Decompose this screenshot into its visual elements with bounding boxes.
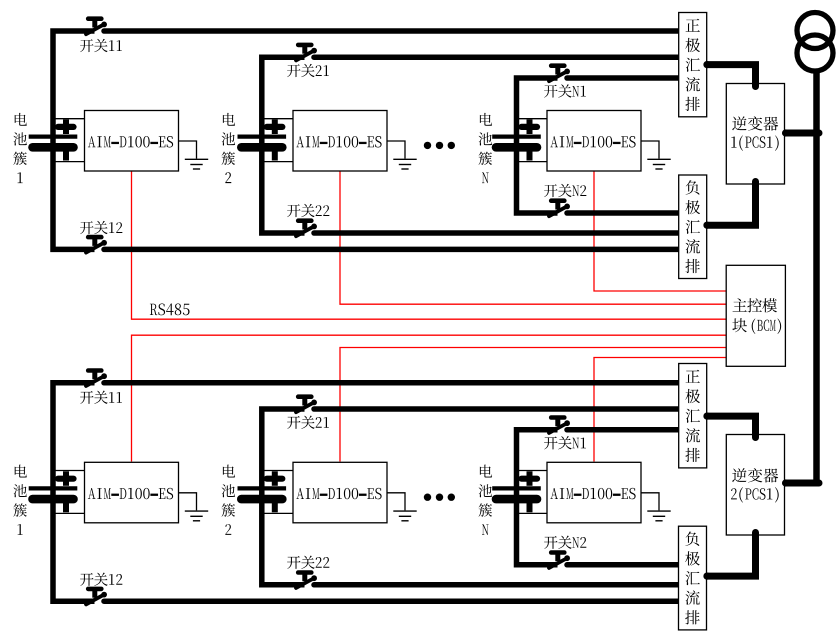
- label AIM-D100-ES (cluster N top): [550, 136, 635, 147]
- BMS module AIM-D100-ES (cluster N top): [547, 111, 641, 172]
- label 1(PCS1): [731, 135, 778, 151]
- wire: inverter 2 AC output to transformer line: [786, 480, 820, 487]
- BMS module AIM-D100-ES (cluster N bottom): [547, 462, 641, 523]
- switch 开关21 bottom: [296, 397, 317, 413]
- wire: negative busbar top to inverter 1 input: [707, 182, 756, 226]
- wire: module N bottom to ground: [641, 493, 659, 511]
- label 开关12 top: [80, 221, 122, 234]
- red wire: AIM module 1 bottom to BCM (RS485): [132, 335, 727, 461]
- wire: bottom bus from switch N2 top to negative busbar: [567, 210, 680, 216]
- BMS module AIM-D100-ES (cluster 1 bottom): [85, 462, 179, 523]
- label 开关22 top: [287, 204, 329, 217]
- switch 开关N1 bottom: [549, 418, 570, 434]
- wire: positive busbar top to inverter 1 input: [707, 65, 756, 87]
- label 正极汇流排 (正极汇流排 top): [685, 19, 700, 111]
- label 开关22 bottom: [287, 556, 329, 569]
- wire: battery 1 bottom positive lead to module: [53, 470, 85, 472]
- inverter U2 逆变器2(PCS1) box: [726, 435, 784, 536]
- label 开关12 bottom: [80, 573, 122, 586]
- wire: module 2 bottom to ground: [387, 493, 405, 511]
- switch 开关22 top: [296, 221, 317, 237]
- wire: battery 1 top positive lead to module: [53, 118, 85, 120]
- label 电池簇1 top: [13, 113, 27, 183]
- label 开关11 bottom: [80, 391, 122, 404]
- wire: inverter 1 AC output to transformer line: [786, 130, 820, 137]
- label 开关21 bottom: [287, 416, 329, 429]
- label AIM-D100-ES (cluster N bottom): [550, 488, 635, 499]
- wire: top bus from switch N1 bottom to positive busbar: [567, 427, 680, 433]
- busbar box: 负极汇流排 top: [679, 175, 707, 279]
- battery cluster 1 bottom: [29, 471, 78, 512]
- wire: battery 2 top negative lead to module: [262, 161, 293, 163]
- wire: battery 2 bottom positive lead to module: [262, 470, 293, 472]
- label 开关N1 top: [544, 84, 586, 97]
- label 负极汇流排 (负极汇流排 top): [685, 180, 700, 273]
- label AIM-D100-ES (cluster 1 top): [88, 136, 173, 147]
- busbar box: 负极汇流排 bottom: [679, 526, 707, 630]
- label 逆变器 (inverter 2): [732, 468, 778, 482]
- wire: cluster 2 top trunk with top/bottom bus stubs: [262, 57, 305, 233]
- label 电池簇2 bottom: [222, 465, 236, 535]
- label AIM-D100-ES (cluster 1 bottom): [88, 488, 173, 499]
- switch 开关21 top: [296, 45, 317, 61]
- wire: top bus from switch 11 bottom to positive busbar: [104, 380, 680, 386]
- label AIM-D100-ES (cluster 2 top): [296, 136, 381, 147]
- wire: top bus from switch 21 top to positive busbar: [314, 54, 680, 60]
- wire: cluster 1 top trunk with top/bottom bus stubs: [53, 31, 95, 249]
- BMS module AIM-D100-ES (cluster 1 top): [85, 111, 179, 172]
- battery cluster 1 top: [29, 120, 78, 161]
- label AIM-D100-ES (cluster 2 bottom): [296, 488, 381, 499]
- label RS485: [150, 303, 190, 315]
- red wire: AIM module 2 bottom to BCM (RS485): [340, 348, 726, 462]
- switch 开关N1 top: [549, 66, 570, 82]
- switch 开关N2 bottom: [549, 553, 570, 569]
- wire: bottom bus from switch 22 top to negative busbar: [314, 230, 680, 236]
- battery cluster N top: [492, 120, 541, 161]
- ground (cluster 1 bottom): [185, 511, 208, 521]
- label 负极汇流排 (负极汇流排 bottom): [685, 532, 700, 625]
- wire: battery 2 top positive lead to module: [262, 118, 293, 120]
- label 电池簇1 bottom: [13, 465, 27, 535]
- wire: battery N top negative lead to module: [517, 161, 548, 163]
- label 电池簇2 top: [222, 113, 236, 183]
- label 开关N2 top: [544, 184, 586, 197]
- wire: negative busbar bottom to inverter 2 input: [707, 533, 756, 577]
- wire: module N top to ground: [641, 141, 659, 159]
- switch 开关12 bottom: [86, 589, 107, 605]
- label 逆变器 (inverter 1): [732, 116, 778, 130]
- battery cluster N bottom: [492, 471, 541, 512]
- wire: module 2 top to ground: [387, 141, 405, 159]
- wire: battery 1 bottom negative lead to module: [53, 512, 85, 514]
- switch 开关11 top: [86, 19, 107, 35]
- wire: module 1 top to ground: [179, 141, 197, 159]
- label 电池簇N bottom: [479, 465, 493, 535]
- wire: positive busbar bottom to inverter 2 input: [707, 416, 756, 437]
- label (BCM) ascii: [752, 319, 781, 335]
- switch 开关22 bottom: [296, 573, 317, 589]
- battery cluster 2 bottom: [238, 471, 287, 512]
- wire: bottom bus from switch N2 bottom to negative busbar: [567, 562, 680, 568]
- switch 开关11 bottom: [86, 371, 107, 387]
- red wire: AIM module N top to BCM (RS485): [594, 171, 726, 291]
- label 开关N2 bottom: [544, 536, 586, 549]
- red wire: AIM module 1 top to BCM (RS485): [132, 171, 727, 319]
- red wire: AIM module 2 top to BCM (RS485): [340, 171, 726, 304]
- wire: battery N top positive lead to module: [517, 118, 548, 120]
- inverter U1 逆变器1(PCS1) box: [726, 84, 784, 185]
- wire: bottom bus from switch 12 bottom to negative busbar: [104, 598, 680, 604]
- busbar box: 正极汇流排 top: [679, 13, 707, 117]
- wire: top bus from switch N1 top to positive busbar: [567, 75, 680, 81]
- label 主控模 (BCM line 1): [733, 298, 778, 312]
- wire: AC trunk from transformer down to inverter 2 junction: [813, 69, 820, 483]
- ground (cluster N top): [647, 159, 670, 169]
- red wire: AIM module N bottom to BCM (RS485): [594, 358, 726, 462]
- wire: cluster 1 bottom trunk with top/bottom bus stubs: [53, 383, 95, 601]
- label 开关21 top: [287, 64, 329, 77]
- wire: module 1 bottom to ground: [179, 493, 197, 511]
- transformer (two overlapping circles): [797, 13, 833, 72]
- wire: battery N bottom positive lead to module: [517, 470, 548, 472]
- label 2(PCS1): [731, 487, 779, 503]
- label 块(BCM) (BCM line 2): [732, 318, 747, 332]
- wire: bottom bus from switch 12 top to negative busbar: [104, 247, 680, 253]
- BMS module AIM-D100-ES (cluster 2 bottom): [293, 462, 387, 523]
- node: ellipsis (more clusters) bottom: [424, 494, 455, 501]
- label 开关11 top: [80, 39, 122, 52]
- wire: top bus from switch 21 bottom to positive busbar: [314, 406, 680, 412]
- wire: cluster N bottom trunk with top/bottom bus stubs: [517, 430, 558, 565]
- master control module BCM box: [726, 265, 785, 366]
- BMS module AIM-D100-ES (cluster 2 top): [293, 111, 387, 172]
- ground (cluster 2 bottom): [393, 511, 416, 521]
- switch 开关N2 top: [549, 201, 570, 217]
- wire: cluster 2 bottom trunk with top/bottom bus stubs: [262, 409, 305, 585]
- busbar box: 正极汇流排 bottom: [679, 364, 707, 468]
- label 正极汇流排 (正极汇流排 bottom): [685, 370, 700, 462]
- wire: battery 1 top negative lead to module: [53, 161, 85, 163]
- battery cluster 2 top: [238, 120, 287, 161]
- wire: bottom bus from switch 22 bottom to negative busbar: [314, 582, 680, 588]
- label 电池簇N top: [479, 113, 493, 183]
- ground (cluster 2 top): [393, 159, 416, 169]
- wire: cluster N top trunk with top/bottom bus stubs: [517, 78, 558, 213]
- wire: top bus from switch 11 top to positive busbar: [104, 28, 680, 34]
- ground (cluster 1 top): [185, 159, 208, 169]
- node: ellipsis (more clusters) top: [424, 142, 455, 149]
- wire: battery N bottom negative lead to module: [517, 512, 548, 514]
- label 开关N1 bottom: [544, 436, 586, 449]
- ground (cluster N bottom): [647, 511, 670, 521]
- wire: battery 2 bottom negative lead to module: [262, 512, 293, 514]
- switch 开关12 top: [86, 237, 107, 253]
- node: busbar output junctions: [703, 61, 789, 580]
